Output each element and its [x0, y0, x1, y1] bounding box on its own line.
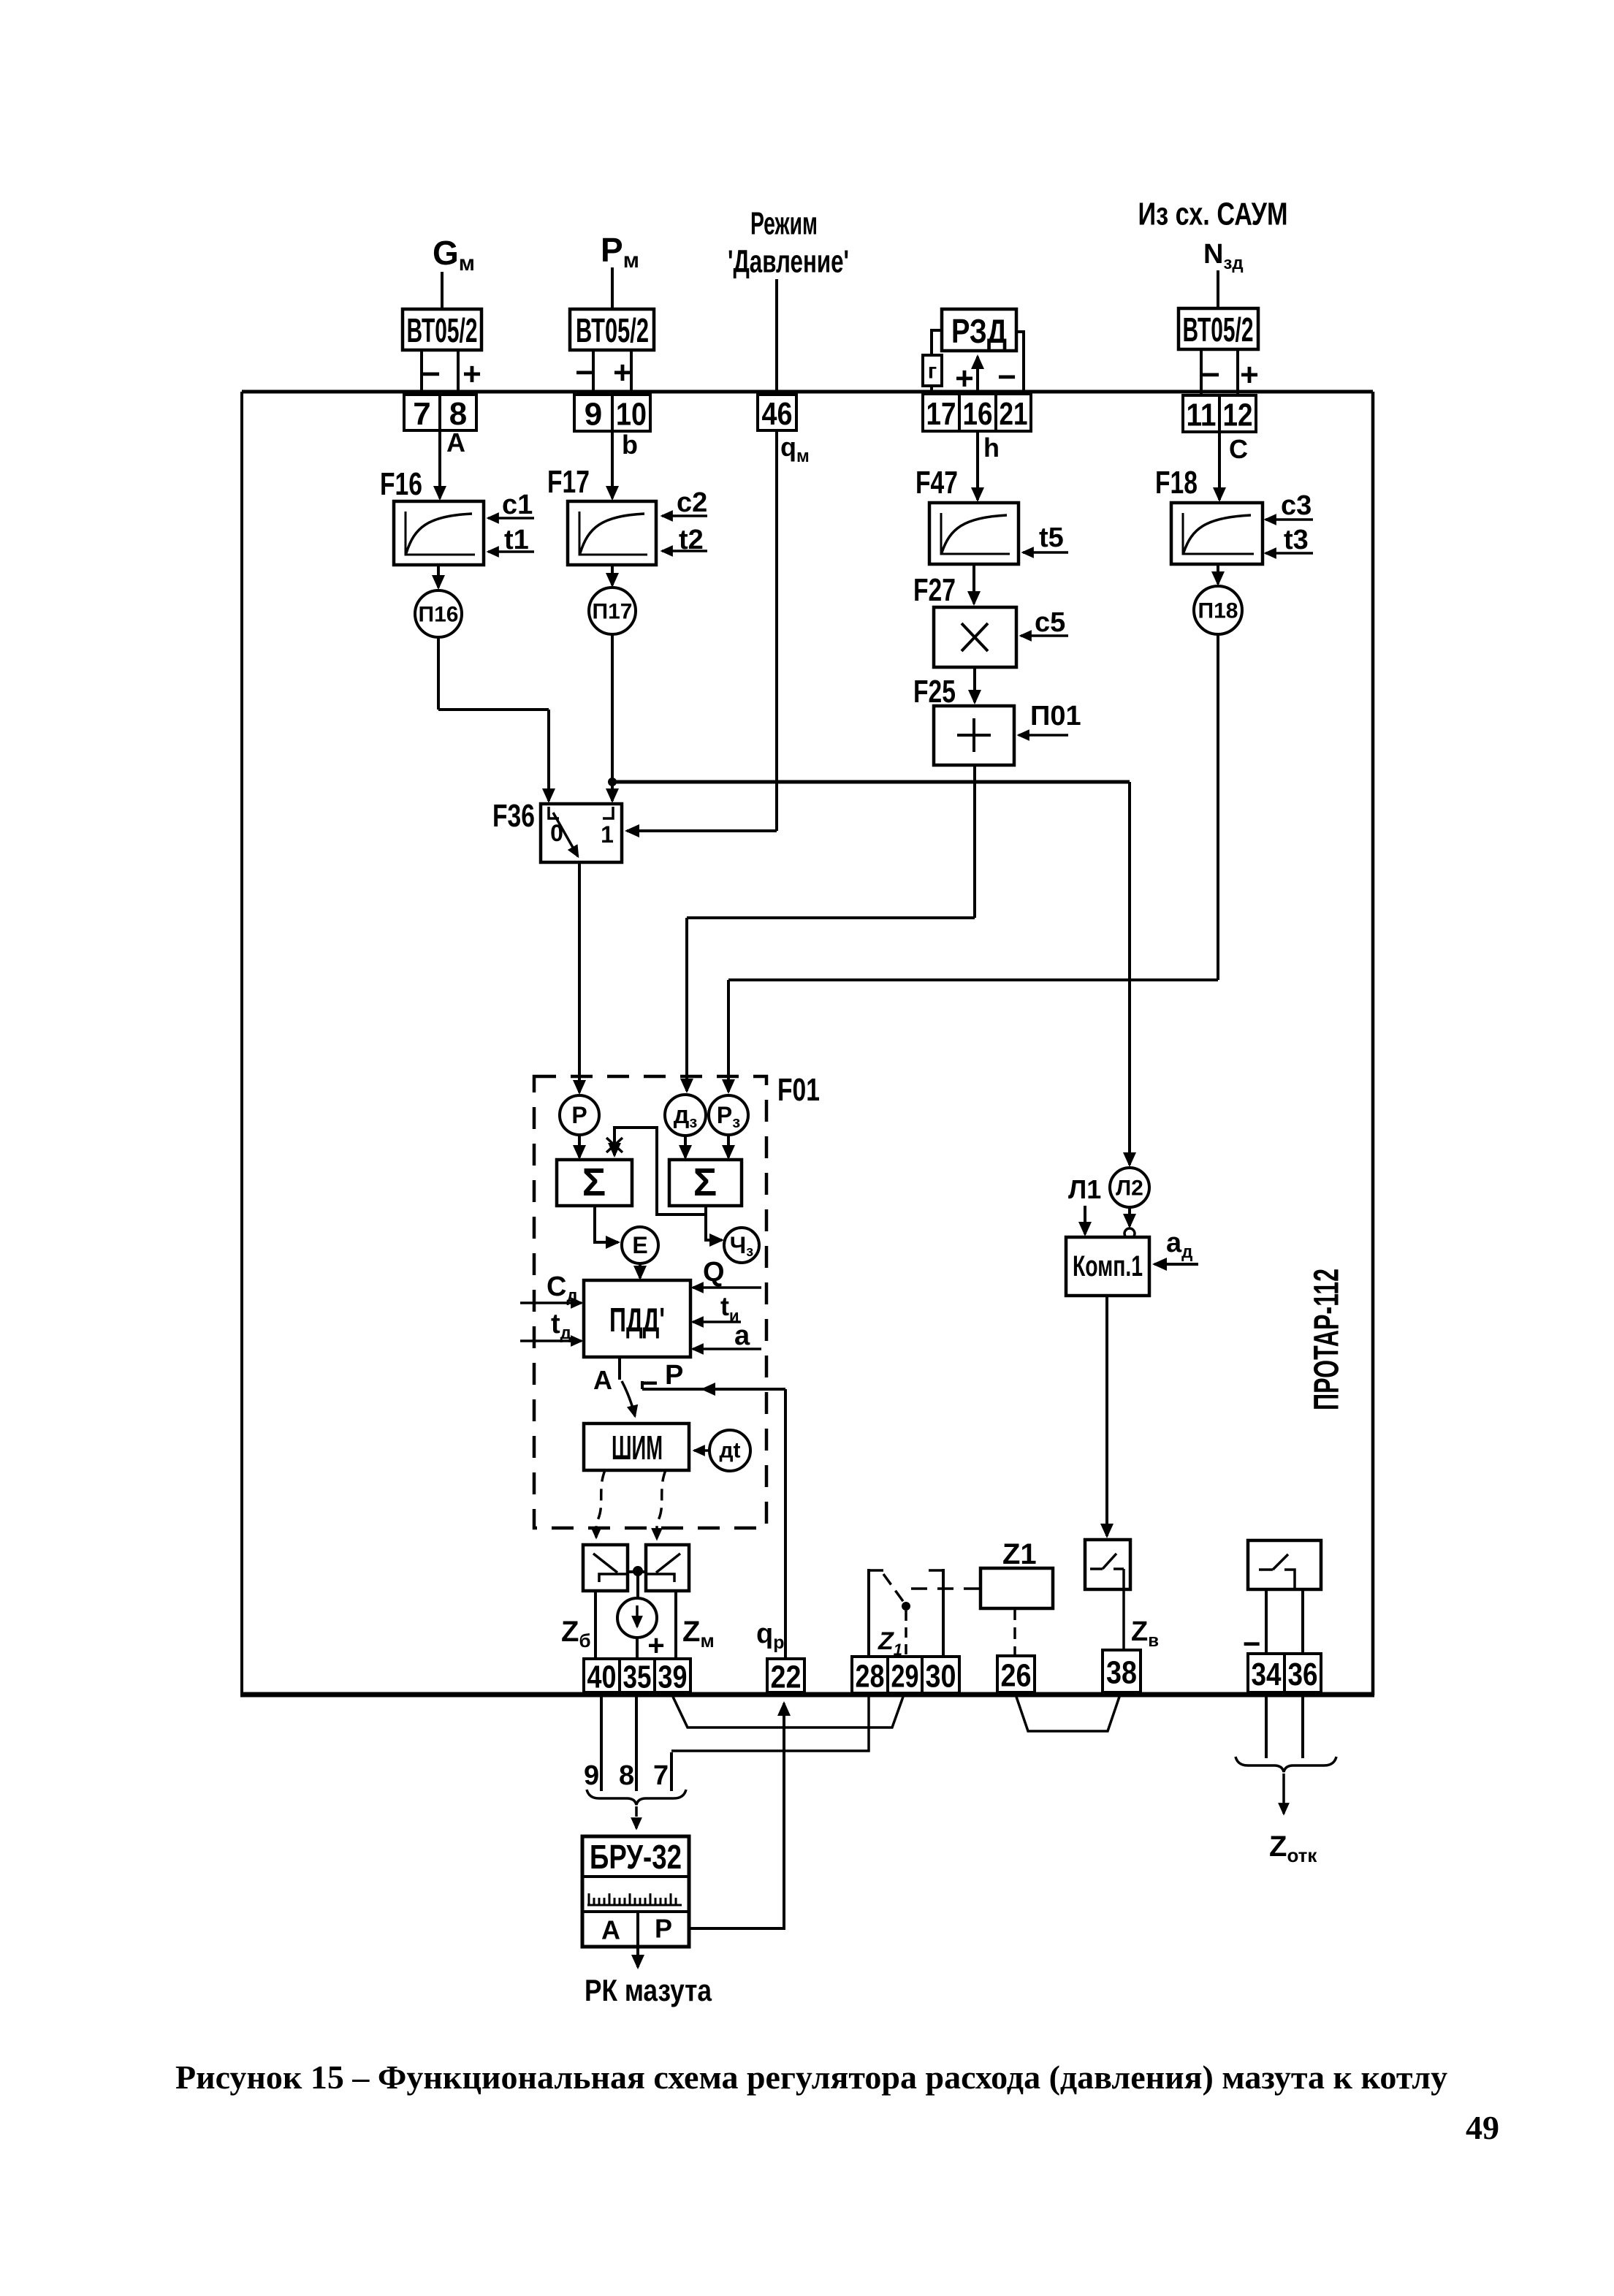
svg-text:1: 1 [601, 821, 614, 848]
svg-text:Σ: Σ [582, 1160, 606, 1204]
svg-text:46: 46 [762, 396, 793, 432]
svg-text:Л1: Л1 [1068, 1174, 1101, 1204]
svg-text:А: А [446, 427, 465, 457]
svg-text:−: − [575, 355, 594, 391]
svg-text:Q: Q [703, 1257, 725, 1288]
svg-text:−: − [1201, 357, 1220, 393]
svg-text:34: 34 [1252, 1657, 1282, 1692]
svg-text:35: 35 [623, 1660, 652, 1695]
svg-text:Р: Р [571, 1102, 587, 1128]
svg-text:29: 29 [891, 1659, 919, 1695]
svg-text:c5: c5 [1035, 607, 1065, 638]
svg-text:−: − [997, 360, 1016, 395]
svg-text:П01: П01 [1030, 701, 1081, 731]
svg-text:21: 21 [1000, 396, 1028, 432]
svg-text:Σ: Σ [693, 1160, 717, 1204]
svg-text:+: + [647, 1630, 664, 1662]
svg-text:30: 30 [926, 1659, 956, 1695]
svg-text:39: 39 [658, 1660, 688, 1695]
svg-text:49: 49 [1466, 2109, 1499, 2146]
svg-text:Режим: Режим [750, 206, 818, 242]
svg-text:+: + [462, 357, 481, 392]
svg-text:40: 40 [587, 1660, 617, 1695]
svg-text:РЗД: РЗД [951, 312, 1007, 350]
svg-text:Из сх. САУМ: Из сх. САУМ [1138, 197, 1288, 232]
svg-text:БРУ-32: БРУ-32 [590, 1838, 682, 1876]
svg-text:c3: c3 [1281, 490, 1312, 521]
svg-text:ВТ05/2: ВТ05/2 [576, 311, 649, 349]
svg-text:П16: П16 [419, 603, 459, 627]
svg-text:ВТ05/2: ВТ05/2 [1183, 311, 1254, 349]
svg-text:Рисунок 15 – Функциональная сх: Рисунок 15 – Функциональная схема регуля… [175, 2059, 1447, 2096]
svg-text:38: 38 [1106, 1655, 1137, 1691]
svg-text:c1: c1 [502, 490, 533, 520]
svg-text:ПРОТАР-112: ПРОТАР-112 [1308, 1269, 1347, 1410]
svg-text:28: 28 [856, 1659, 885, 1695]
svg-text:+: + [613, 355, 632, 391]
svg-text:F17: F17 [547, 464, 590, 500]
svg-text:9: 9 [585, 397, 602, 433]
svg-text:12: 12 [1223, 398, 1253, 433]
svg-text:Е: Е [632, 1232, 647, 1258]
svg-text:F47: F47 [916, 465, 958, 501]
svg-text:а: а [734, 1320, 750, 1351]
svg-text:Комп.1: Комп.1 [1073, 1250, 1143, 1282]
svg-text:−: − [422, 357, 441, 392]
svg-text:C: C [1229, 434, 1248, 464]
svg-text:F01: F01 [777, 1072, 820, 1108]
svg-text:+: + [955, 361, 974, 397]
svg-text:10: 10 [616, 397, 647, 433]
svg-text:16: 16 [963, 396, 993, 432]
svg-text:26: 26 [1001, 1658, 1032, 1694]
svg-text:17: 17 [926, 396, 956, 432]
svg-text:11: 11 [1187, 398, 1217, 433]
svg-text:г: г [928, 360, 937, 384]
svg-text:7: 7 [413, 396, 430, 432]
svg-text:Z1: Z1 [1002, 1538, 1037, 1570]
svg-text:0: 0 [550, 820, 563, 846]
svg-text:П18: П18 [1198, 599, 1238, 623]
svg-text:F36: F36 [492, 798, 535, 834]
svg-text:7: 7 [653, 1760, 669, 1791]
svg-text:8: 8 [619, 1760, 634, 1791]
svg-text:t5: t5 [1039, 522, 1064, 553]
svg-text:h: h [983, 433, 1000, 463]
svg-text:22: 22 [771, 1660, 802, 1695]
svg-text:РК мазута: РК мазута [585, 1973, 712, 2007]
svg-text:c2: c2 [677, 487, 707, 518]
svg-text:'Давление': 'Давление' [728, 244, 849, 280]
svg-text:t3: t3 [1284, 525, 1309, 555]
svg-text:F16: F16 [380, 466, 422, 502]
svg-text:F25: F25 [913, 674, 956, 710]
svg-text:ШИМ: ШИМ [612, 1429, 663, 1467]
svg-text:36: 36 [1288, 1657, 1318, 1692]
svg-text:Л2: Л2 [1116, 1176, 1143, 1201]
svg-text:ВТ05/2: ВТ05/2 [407, 311, 478, 349]
svg-text:Р: Р [655, 1914, 672, 1944]
svg-text:ПДД': ПДД' [609, 1301, 665, 1339]
svg-text:9: 9 [584, 1760, 599, 1791]
svg-text:F18: F18 [1155, 465, 1198, 501]
svg-text:F27: F27 [913, 572, 956, 608]
svg-text:Р: Р [665, 1360, 683, 1391]
svg-text:+: + [1240, 357, 1259, 393]
svg-text:А: А [601, 1915, 620, 1945]
svg-text:дt: дt [719, 1439, 740, 1463]
svg-text:А: А [593, 1365, 612, 1395]
svg-text:П17: П17 [593, 600, 633, 624]
svg-text:b: b [622, 430, 638, 460]
svg-text:8: 8 [449, 396, 467, 432]
